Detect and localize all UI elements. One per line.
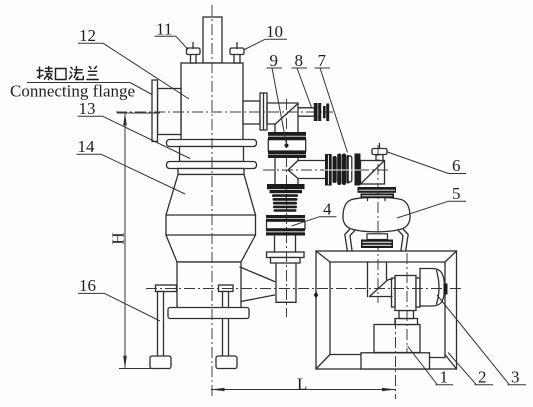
L arrow right: [382, 388, 396, 392]
branch vertical centerline: [286, 99, 288, 317]
svg-text:6: 6: [452, 156, 461, 175]
svg-text:13: 13: [79, 99, 96, 118]
right port stub: [243, 101, 260, 124]
drop pipe flange upper bar: [267, 252, 305, 258]
pump inlet wedge: [370, 279, 393, 296]
H dim line: [124, 113, 126, 369]
pump pedestal: [374, 325, 420, 353]
valve 9 body: [268, 140, 305, 152]
bolt 10 centerline tick: [236, 43, 238, 49]
bolt 11 cap: [187, 48, 201, 55]
valve 4 top flange: [266, 215, 305, 218]
H dim bottom tick: [119, 368, 156, 370]
pump base plate 1: [361, 353, 430, 369]
upper wide flange 13: [167, 140, 257, 147]
svg-text:12: 12: [79, 26, 96, 45]
svg-text:L: L: [297, 375, 307, 394]
motor cap curve: [437, 271, 440, 305]
motor shaft nub: [444, 284, 448, 295]
svg-text:2: 2: [478, 368, 487, 387]
barrel weld seam upper: [166, 214, 256, 216]
main vertical centerline: [211, 5, 213, 399]
svg-text:7: 7: [318, 51, 327, 70]
frame corner diagonal TR: [445, 251, 457, 262]
pump cylinder ring right: [416, 278, 420, 307]
pump mount flange: [395, 319, 418, 325]
chinese note 接口法兰: [37, 66, 99, 80]
note leader: [130, 83, 152, 95]
spool cylinder: [180, 147, 244, 162]
note underline: [27, 82, 130, 84]
tee funnel: [288, 161, 298, 179]
main valve body 12: [181, 63, 243, 140]
L extension line: [395, 318, 397, 399]
pot top neck: [368, 198, 386, 200]
bellows right flange: [355, 154, 361, 186]
right port flange: [260, 93, 267, 130]
drop line flange A: [267, 184, 305, 189]
stand bracket left: [156, 285, 177, 292]
pot bottom flange: [361, 240, 393, 249]
svg-text:11: 11: [156, 20, 172, 39]
lower wide flange: [167, 162, 257, 169]
top inlet pipe: [203, 17, 222, 63]
svg-text:Connecting flange: Connecting flange: [10, 82, 135, 101]
drop line bellows rings: [272, 194, 298, 197]
bolt 11 centerline tick: [192, 43, 194, 49]
stand bracket right: [219, 285, 234, 292]
valve 9 spindle dot: [285, 144, 289, 148]
frame corner diagonal BR: [445, 355, 457, 370]
bolt 6 centerline tick: [379, 144, 381, 149]
valve 4 body: [267, 221, 306, 229]
pot vertical centerline: [377, 145, 379, 303]
pump neck: [399, 311, 414, 319]
pump cylinder ring left: [392, 278, 396, 307]
frame corner diagonal BL: [316, 355, 330, 370]
pot leg right: [399, 230, 409, 251]
base frame outer: [316, 251, 457, 369]
svg-text:H: H: [109, 232, 128, 244]
valve 9 bottom flange: [268, 151, 306, 154]
stand foot right: [216, 356, 237, 369]
vessel bottom section: [177, 262, 241, 309]
frame corner diagonal TL: [316, 251, 330, 262]
barrel neck: [178, 169, 244, 175]
H arrow up: [123, 113, 127, 126]
pump cylinder body: [395, 276, 416, 311]
elbow upper diagonal: [275, 104, 298, 125]
L arrow left: [211, 388, 225, 392]
upper port centerline: [116, 111, 333, 113]
valve 4 bottom flange: [266, 229, 305, 232]
bellows flange left: [325, 154, 332, 186]
stand leg left: [158, 292, 164, 357]
right port flange inner line: [263, 93, 265, 130]
stand plate 16: [168, 308, 249, 319]
bolt 11 stem: [191, 54, 197, 63]
separator pot 5: [343, 197, 410, 232]
bellows branch centerline: [263, 169, 389, 171]
drop pipe mid: [275, 235, 296, 252]
bellows white ring: [348, 156, 352, 182]
outlet funnel top: [240, 267, 275, 282]
elbow 6 box: [361, 161, 385, 185]
elbow 6 diagonal: [361, 161, 384, 184]
barrel weld seam lower: [166, 234, 256, 236]
tee drop pipe: [275, 158, 298, 185]
drop pipe flange lower bar: [271, 258, 301, 264]
bolt 6 stem: [376, 155, 383, 161]
H arrow down: [123, 356, 127, 369]
bolt 10 stem: [234, 54, 240, 63]
barrel vessel 14: [166, 175, 256, 263]
svg-text:5: 5: [452, 184, 461, 203]
bolt 6 cap: [372, 149, 387, 155]
outlet centerline: [146, 288, 461, 290]
bellows 7 rings: [333, 156, 337, 183]
tee branch pipe: [298, 161, 325, 179]
connecting flange plate 12: [152, 80, 158, 142]
svg-text:16: 16: [79, 276, 96, 295]
pot bottom spacer: [367, 234, 388, 240]
valve 9 top flange: [268, 132, 306, 136]
outlet funnel bottom: [241, 295, 275, 302]
H dim top tick: [117, 112, 160, 114]
pot leg left: [345, 230, 355, 251]
pump vertical centerline: [406, 253, 408, 352]
frame edge mark: [314, 292, 318, 299]
elbow upper body: [267, 103, 298, 133]
svg-text:4: 4: [323, 200, 332, 219]
left port stub: [158, 89, 182, 135]
blank valve 8 plates: [314, 103, 318, 121]
valve 8 stub pipe: [298, 108, 314, 116]
motor 3 body: [420, 269, 445, 307]
svg-text:14: 14: [78, 137, 96, 156]
drop pipe lower: [276, 263, 296, 302]
stand leg right: [223, 292, 229, 357]
L dim line: [211, 389, 396, 391]
bellows centerline gap: [325, 169, 362, 171]
svg-text:9: 9: [270, 51, 279, 70]
pot discharge duct: [368, 262, 387, 297]
bellows left flange inner line: [327, 155, 329, 185]
stand foot left: [150, 356, 171, 369]
svg-text:1: 1: [440, 368, 449, 387]
svg-text:10: 10: [266, 22, 283, 41]
bolt 10 cap: [230, 48, 244, 55]
base frame inner: [330, 262, 445, 355]
svg-text:3: 3: [511, 368, 520, 387]
pot top flange: [358, 187, 397, 193]
svg-text:8: 8: [295, 51, 304, 70]
